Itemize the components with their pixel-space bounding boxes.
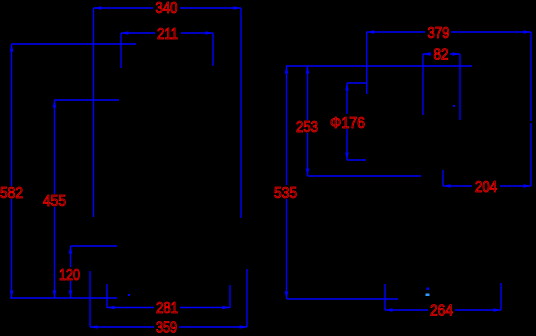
dimension 455 line (53, 100, 57, 298)
dimension 535 line (285, 66, 289, 299)
label 535 (272, 185, 298, 202)
leader bottom of phi176 (347, 159, 366, 161)
extension line top of 455 (55, 99, 120, 101)
dimension 281 line (107, 306, 230, 310)
extension line left of 82 (422, 54, 424, 115)
extension line right of 211 (212, 33, 214, 66)
extension line right of 340 (240, 8, 242, 218)
extension line left of 340 (93, 8, 95, 217)
stray dash right view lower (426, 294, 430, 297)
extension line right of 82 (459, 54, 461, 120)
svg-text:120: 120 (59, 267, 80, 284)
extension line top of 582 (12, 43, 137, 45)
extension line left of 359 (89, 271, 91, 327)
label 340 (153, 0, 180, 17)
extension line right of 379 / 204 (530, 32, 532, 121)
svg-text:Φ176: Φ176 (330, 115, 365, 132)
dimension 359 line (90, 325, 247, 329)
svg-text:379: 379 (428, 25, 450, 42)
extension line right of 359 (246, 269, 248, 327)
extension line bottom of 253 (308, 175, 422, 177)
svg-text:82: 82 (434, 47, 449, 64)
extension line left of 281 (106, 284, 108, 308)
stray dot near 82 (453, 105, 455, 107)
dimension 204 line (443, 184, 531, 188)
bottom reference line right view (287, 298, 398, 300)
bottom reference line left view (10, 297, 117, 299)
dimension 82 line (423, 52, 460, 56)
svg-text:340: 340 (156, 0, 178, 17)
label 120 (57, 267, 82, 284)
dimension 379 line (367, 30, 531, 34)
svg-text:204: 204 (475, 179, 497, 196)
leader top of phi176 (347, 82, 366, 84)
label 264 (428, 302, 455, 319)
svg-text:211: 211 (157, 26, 178, 43)
svg-text:253: 253 (296, 119, 318, 136)
label 82 (431, 47, 450, 64)
dimension 582 line (10, 44, 14, 298)
extension line left of 264 (384, 284, 386, 310)
svg-text:359: 359 (156, 319, 177, 336)
svg-text:582: 582 (0, 185, 23, 202)
dimension 340 line (94, 6, 242, 10)
extension line left of 379 (366, 32, 368, 94)
svg-text:455: 455 (43, 193, 66, 210)
extension line right of 264 (500, 283, 502, 310)
extension line left of 211 (120, 33, 122, 68)
svg-text:535: 535 (274, 185, 297, 202)
dimension 253 line (306, 66, 310, 176)
label 253 (294, 119, 320, 136)
label 359 (154, 319, 179, 336)
stray dot left view (128, 294, 130, 296)
dimension 264 line (385, 308, 501, 312)
label phi176 (328, 114, 367, 132)
extension line top of 120 (71, 245, 118, 247)
dimension phi176 line (345, 83, 349, 160)
dimension 211 line (121, 31, 213, 35)
label 281 (154, 300, 180, 317)
label 204 (472, 179, 500, 196)
dimension 120 line (69, 246, 73, 298)
label 211 (155, 26, 181, 43)
label 455 (41, 193, 67, 210)
svg-text:281: 281 (156, 300, 178, 317)
extension line left of 204 (442, 170, 444, 186)
label 582 (0, 185, 24, 202)
label 379 (425, 25, 451, 42)
svg-text:264: 264 (430, 302, 453, 319)
stray dot right view upper (427, 288, 430, 291)
top reference line right view (286, 65, 472, 67)
extension line right of 281 (229, 285, 231, 308)
